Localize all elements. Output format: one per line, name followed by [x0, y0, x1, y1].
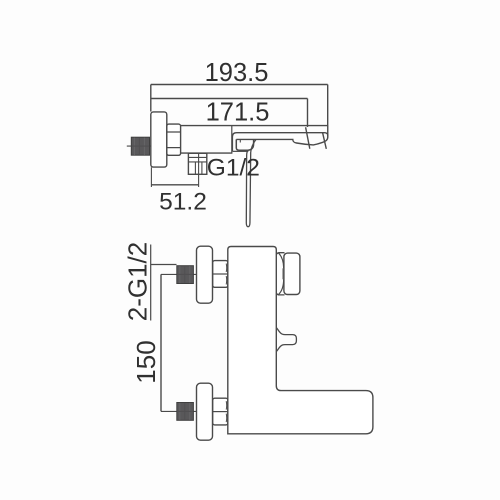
threaded nipple 2 (dark)	[177, 403, 194, 421]
oblique tick at 193.5 spout tip	[323, 132, 327, 149]
lever end plate (plan)	[284, 253, 300, 294]
body / head divider	[231, 126, 233, 154]
svg-text:G1/2: G1/2	[207, 154, 260, 181]
lever neck (plan, end-on)	[277, 253, 285, 295]
hex nut 2 facet line	[213, 411, 228, 413]
hex nut 2 chamfer arcs	[225, 401, 228, 422]
hex nut (side view)	[167, 124, 181, 155]
threaded nipple (side view, dark)	[131, 137, 149, 155]
extension line left 51.2	[150, 167, 152, 187]
center line inlet 2	[161, 410, 196, 412]
dim line 193.5	[151, 84, 328, 86]
cartridge inner tick	[239, 140, 241, 143]
oblique tick at 171.5 spout edge	[306, 127, 310, 148]
cartridge housing inner outline	[236, 139, 253, 150]
escutcheon plate 1 (plan)	[197, 246, 213, 303]
lever handle blade (side view)	[246, 140, 256, 227]
svg-text:193.5: 193.5	[205, 59, 269, 87]
outlet fitting G1/2 (side view)	[188, 153, 206, 174]
hex nut 1 chamfer arcs	[225, 264, 228, 285]
hex nut 2 (plan)	[213, 398, 228, 425]
svg-text:171.5: 171.5	[206, 99, 270, 127]
extension line right 193.5	[327, 85, 329, 127]
svg-text:150: 150	[131, 340, 161, 383]
head cap and spout underside outline	[232, 133, 327, 152]
svg-text:51.2: 51.2	[159, 188, 207, 215]
leader line 2-G1/2	[151, 245, 177, 321]
wall escutcheon plate (side view)	[151, 112, 167, 167]
extension line left 193.5	[150, 85, 152, 112]
hex nut facet lines	[167, 132, 181, 148]
extension line right 51.2	[198, 153, 200, 187]
head cap bottom edge	[233, 150, 249, 152]
dim line 51.2	[151, 184, 198, 186]
faucet body bottom edge	[181, 152, 233, 154]
dim line 171.5	[151, 98, 308, 100]
spout tip right edge	[327, 126, 329, 137]
inlet center line (side view)	[127, 145, 153, 147]
outlet fitting flange lines	[189, 157, 207, 162]
faucet body top edge	[181, 125, 328, 127]
outlet thread lines	[195, 162, 202, 174]
hex nut 1 (plan)	[213, 261, 228, 288]
lever neck shaded waist	[282, 268, 284, 279]
lever neck waist arcs	[279, 253, 284, 294]
center line inlet 1	[161, 273, 196, 275]
threaded nipple 1 (dark)	[177, 266, 194, 284]
extension line right 171.5	[307, 99, 309, 128]
escutcheon plate 2 (plan)	[197, 383, 213, 440]
svg-text:2-G1/2: 2-G1/2	[123, 242, 153, 322]
faucet body outline (plan, L-shape)	[228, 247, 373, 434]
dim line 150	[160, 274, 162, 411]
hex nut 1 facet line	[213, 273, 228, 275]
wall bracket tab (plan)	[276, 328, 296, 352]
